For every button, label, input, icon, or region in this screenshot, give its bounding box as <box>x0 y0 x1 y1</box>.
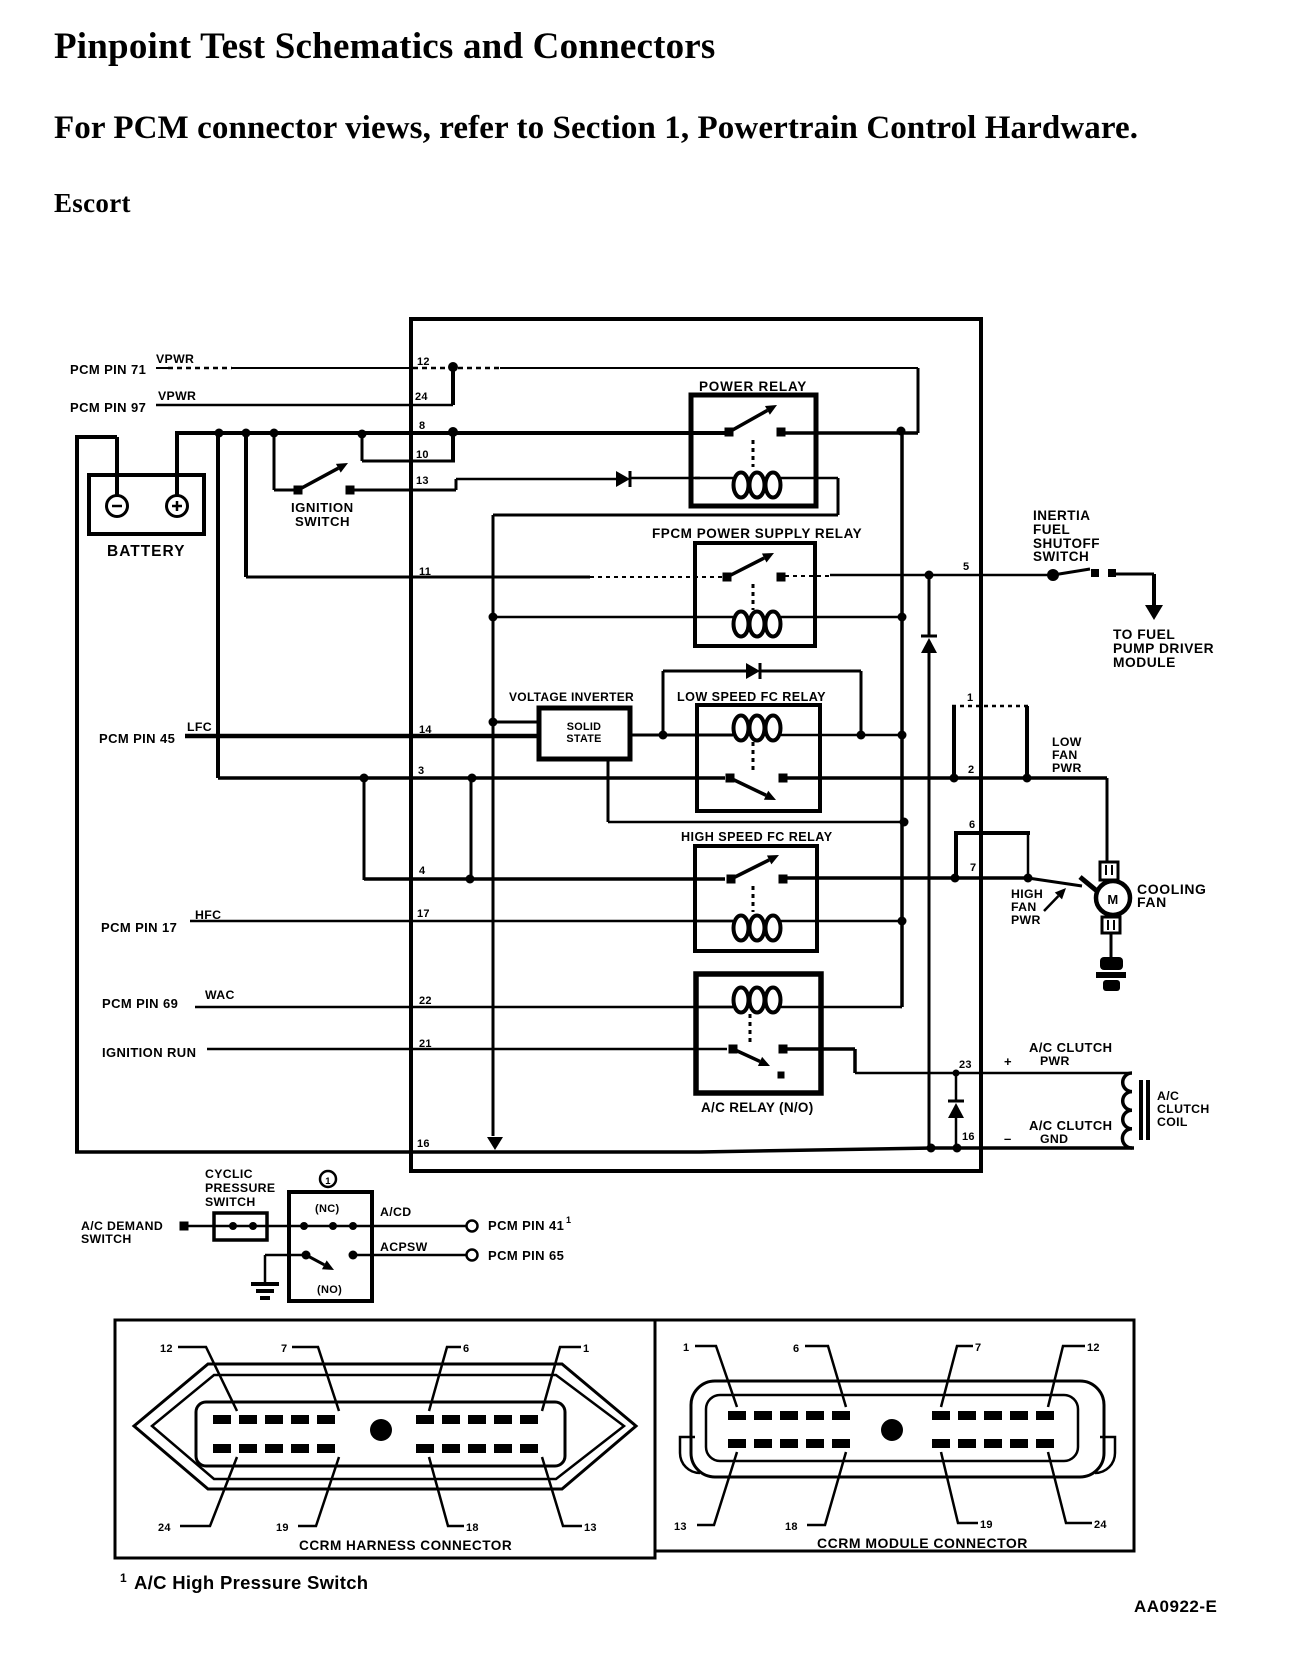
svg-text:1: 1 <box>583 1343 589 1355</box>
svg-text:FPCM POWER SUPPLY RELAY: FPCM POWER SUPPLY RELAY <box>652 526 862 541</box>
svg-text:CCRM MODULE CONNECTOR: CCRM MODULE CONNECTOR <box>817 1535 1028 1551</box>
svg-text:WAC: WAC <box>205 988 235 1002</box>
svg-text:A/C DEMAND: A/C DEMAND <box>81 1219 163 1233</box>
svg-text:12: 12 <box>160 1343 173 1355</box>
svg-text:4: 4 <box>419 865 426 877</box>
wire power relay coil return to ground bus <box>837 478 840 515</box>
wire pin 24 VPWR line (PCM PIN 97) <box>156 404 453 407</box>
node pin12/pin24 bracket junction <box>448 362 458 372</box>
svg-text:COIL: COIL <box>1157 1115 1188 1129</box>
svg-text:M: M <box>1107 892 1118 907</box>
svg-text:PCM PIN 97: PCM PIN 97 <box>70 400 146 415</box>
wire ground bus vertical <box>492 515 495 1136</box>
svg-text:24: 24 <box>1094 1519 1107 1531</box>
svg-text:FAN: FAN <box>1011 900 1037 914</box>
svg-text:A/C CLUTCH: A/C CLUTCH <box>1029 1040 1112 1055</box>
svg-text:1: 1 <box>120 1571 127 1585</box>
svg-text:22: 22 <box>419 995 432 1007</box>
wire pin 11 line (to FPCM relay) <box>244 433 248 577</box>
svg-text:5: 5 <box>963 561 969 573</box>
svg-text:PCM PIN 71: PCM PIN 71 <box>70 362 146 377</box>
wire pin 5 inertia line <box>785 575 830 577</box>
terminal PCM PIN 65 <box>467 1250 478 1261</box>
diode CR2 vertical <box>921 635 937 638</box>
svg-text:PWR: PWR <box>1011 913 1041 927</box>
svg-text:SWITCH: SWITCH <box>295 514 350 529</box>
A/C high pressure switch S4 <box>289 1192 372 1301</box>
svg-text:6: 6 <box>793 1343 799 1355</box>
svg-text:VPWR: VPWR <box>156 352 194 366</box>
svg-text:16: 16 <box>962 1131 975 1143</box>
wire pin 1 dashed bracket <box>952 705 1028 708</box>
svg-text:PUMP DRIVER: PUMP DRIVER <box>1113 641 1214 656</box>
svg-text:A/C: A/C <box>1157 1089 1179 1103</box>
svg-text:A/C CLUTCH: A/C CLUTCH <box>1029 1118 1112 1133</box>
wire NO to ACPSW <box>357 1254 467 1257</box>
node A/C demand terminal <box>180 1222 189 1231</box>
svg-text:19: 19 <box>980 1519 993 1531</box>
low speed FC relay K3 <box>697 705 820 811</box>
svg-text:VOLTAGE INVERTER: VOLTAGE INVERTER <box>509 690 634 704</box>
wire NC line through switch <box>289 1225 467 1228</box>
svg-text:2: 2 <box>968 764 974 776</box>
svg-text:HFC: HFC <box>195 908 221 922</box>
svg-text:Pinpoint Test Schematics and C: Pinpoint Test Schematics and Connectors <box>54 26 716 67</box>
svg-text:IGNITION: IGNITION <box>291 500 354 515</box>
wire riser to ignition switch <box>273 433 276 490</box>
svg-text:7: 7 <box>970 862 976 874</box>
svg-text:7: 7 <box>281 1343 287 1355</box>
svg-text:17: 17 <box>417 908 430 920</box>
svg-text:A/C RELAY (N/O): A/C RELAY (N/O) <box>701 1100 814 1115</box>
svg-text:CYCLIC: CYCLIC <box>205 1167 253 1181</box>
CCRM module outline box <box>411 319 981 1171</box>
FPCM power supply relay K2 <box>695 543 815 646</box>
wire low fan pwr drop to fan <box>1106 778 1109 862</box>
svg-text:6: 6 <box>463 1343 469 1355</box>
svg-text:10: 10 <box>416 449 429 461</box>
svg-text:FAN: FAN <box>1137 894 1167 910</box>
wire pin 7 high fan line <box>787 876 1024 880</box>
wire HFC line (PCM PIN 17) <box>190 920 733 923</box>
svg-text:PCM PIN 41: PCM PIN 41 <box>488 1218 564 1233</box>
terminal PCM PIN 41 <box>467 1221 478 1232</box>
svg-text:+: + <box>1004 1054 1012 1069</box>
wire battery positive to VPWR rail <box>175 433 179 496</box>
A/C clutch coil L1 <box>1122 1073 1132 1148</box>
wire ground bus to inverter upper input <box>493 721 539 724</box>
diode CR1 on pin 13 line <box>616 471 630 487</box>
svg-text:GND: GND <box>1040 1132 1068 1146</box>
svg-text:1: 1 <box>683 1342 689 1354</box>
svg-text:For PCM connector views, refer: For PCM connector views, refer to Sectio… <box>54 110 1138 146</box>
svg-text:6: 6 <box>969 819 975 831</box>
node VPWR rail junctions <box>215 429 224 438</box>
svg-text:CLUTCH: CLUTCH <box>1157 1102 1210 1116</box>
module connector shell <box>691 1381 1104 1477</box>
wire pin 3/4 external tie <box>363 778 366 880</box>
wire pin5 branch vertical <box>928 575 931 636</box>
svg-text:(NC): (NC) <box>315 1203 339 1215</box>
wire pin 3 line <box>216 433 220 778</box>
wire riser pin12 line to VPWR rail <box>917 368 920 433</box>
svg-text:PWR: PWR <box>1052 761 1082 775</box>
diode CR4 clutch flyback <box>955 1073 958 1101</box>
svg-text:1: 1 <box>325 1176 331 1187</box>
CCRM module connector box <box>655 1320 1134 1551</box>
svg-text:12: 12 <box>417 356 430 368</box>
svg-text:HIGH: HIGH <box>1011 887 1043 901</box>
svg-text:PCM PIN 45: PCM PIN 45 <box>99 731 175 746</box>
svg-text:18: 18 <box>466 1522 479 1534</box>
svg-text:INERTIA: INERTIA <box>1033 508 1091 523</box>
svg-text:LFC: LFC <box>187 720 212 734</box>
svg-text:13: 13 <box>584 1522 597 1534</box>
svg-text:16: 16 <box>417 1138 430 1150</box>
svg-text:12: 12 <box>1087 1342 1100 1354</box>
wire FPCM coil line <box>493 616 733 619</box>
wire inverter output to LS relay coil <box>630 734 733 737</box>
svg-text:POWER RELAY: POWER RELAY <box>699 379 807 394</box>
cooling fan motor M1 <box>1100 862 1118 880</box>
inertia fuel shutoff switch S2 <box>1047 569 1059 581</box>
wire pin 13 line with jog <box>354 489 456 492</box>
wire LFC line (PCM PIN 45) <box>185 734 539 739</box>
NO switch contacts <box>302 1251 311 1260</box>
diode CR3 bypass <box>746 663 760 679</box>
svg-text:1: 1 <box>566 1215 571 1225</box>
wire pin 10 bracket <box>361 434 364 461</box>
ground chassis pressure switch <box>251 1282 279 1286</box>
svg-text:PCM PIN 17: PCM PIN 17 <box>101 920 177 935</box>
svg-text:13: 13 <box>416 475 429 487</box>
wire pin 23 A/C clutch pwr line <box>787 1047 855 1051</box>
wire inverter lower output to VPWR bus <box>607 759 610 822</box>
cyclic pressure switch S3 <box>214 1213 267 1240</box>
svg-text:–: – <box>1004 1131 1012 1146</box>
module connector pins <box>728 1411 746 1420</box>
svg-text:HIGH SPEED FC RELAY: HIGH SPEED FC RELAY <box>681 830 833 844</box>
ignition switch S1 <box>294 486 303 495</box>
wire ground bottom run (pin 16 line) <box>75 1150 700 1154</box>
A/C relay K5 <box>696 974 821 1093</box>
wire NO to ground <box>265 1254 302 1257</box>
power relay K1 <box>691 395 816 506</box>
svg-text:IGNITION RUN: IGNITION RUN <box>102 1045 196 1060</box>
wire pin 12 VPWR line (PCM PIN 71) <box>156 367 168 369</box>
wire LS coil bypass <box>662 671 665 735</box>
svg-text:PWR: PWR <box>1040 1054 1070 1068</box>
svg-text:24: 24 <box>415 391 428 403</box>
svg-text:MODULE: MODULE <box>1113 655 1176 670</box>
svg-text:(NO): (NO) <box>317 1284 342 1296</box>
svg-text:SWITCH: SWITCH <box>1033 549 1089 564</box>
svg-text:FAN: FAN <box>1052 748 1078 762</box>
harness connector shell <box>134 1364 636 1489</box>
svg-text:CCRM HARNESS CONNECTOR: CCRM HARNESS CONNECTOR <box>299 1538 512 1553</box>
svg-text:A/CD: A/CD <box>380 1205 411 1219</box>
svg-text:3: 3 <box>418 765 424 777</box>
svg-text:PRESSURE: PRESSURE <box>205 1181 275 1195</box>
wire ignition run line <box>207 1048 727 1051</box>
high speed FC relay K4 <box>695 846 817 951</box>
svg-text:18: 18 <box>785 1521 798 1533</box>
svg-text:ACPSW: ACPSW <box>380 1240 428 1254</box>
svg-text:19: 19 <box>276 1522 289 1534</box>
svg-text:7: 7 <box>975 1342 981 1354</box>
wire pin 3/4 internal tie <box>470 778 473 879</box>
ground chassis fan <box>1100 957 1123 970</box>
svg-text:PCM PIN 69: PCM PIN 69 <box>102 996 178 1011</box>
harness connector pins <box>213 1415 231 1424</box>
svg-text:24: 24 <box>158 1522 171 1534</box>
CCRM harness connector box <box>115 1320 655 1558</box>
svg-text:1: 1 <box>967 692 973 704</box>
svg-text:A/C High Pressure Switch: A/C High Pressure Switch <box>134 1572 368 1593</box>
svg-text:PCM PIN 65: PCM PIN 65 <box>488 1248 564 1263</box>
svg-text:SWITCH: SWITCH <box>205 1195 256 1209</box>
svg-text:TO FUEL: TO FUEL <box>1113 627 1175 642</box>
wire pin 6/7 bracket <box>954 831 1030 835</box>
svg-text:LOW SPEED FC RELAY: LOW SPEED FC RELAY <box>677 690 826 704</box>
svg-text:8: 8 <box>419 420 425 432</box>
wire demand to cyclic switch <box>188 1225 289 1228</box>
svg-text:BATTERY: BATTERY <box>107 543 185 560</box>
wire VPWR vertical bus <box>900 431 904 1007</box>
svg-text:SWITCH: SWITCH <box>81 1232 132 1246</box>
wire battery negative to ground loop <box>115 437 119 496</box>
svg-text:STATE: STATE <box>566 733 601 745</box>
wire pin 4 line <box>364 877 725 881</box>
svg-text:AA0922-E: AA0922-E <box>1134 1597 1217 1616</box>
svg-text:VPWR: VPWR <box>158 389 196 403</box>
voltage inverter U1 (solid state) <box>539 708 630 759</box>
svg-text:13: 13 <box>674 1521 687 1533</box>
wire WAC line (PCM PIN 69) <box>195 1006 733 1009</box>
svg-text:FUEL: FUEL <box>1033 522 1070 537</box>
svg-text:LOW: LOW <box>1052 735 1082 749</box>
battery B1 <box>89 475 204 534</box>
wire VPWR rail (pin 8 line) <box>175 431 730 435</box>
svg-text:23: 23 <box>959 1059 972 1071</box>
svg-text:Escort: Escort <box>54 188 131 218</box>
svg-text:SOLID: SOLID <box>567 721 602 733</box>
wire A/C coil to VPWR bus corner <box>901 1006 903 1009</box>
node ground bus junctions <box>489 613 498 622</box>
wire pin 2 low fan line <box>787 776 1107 780</box>
